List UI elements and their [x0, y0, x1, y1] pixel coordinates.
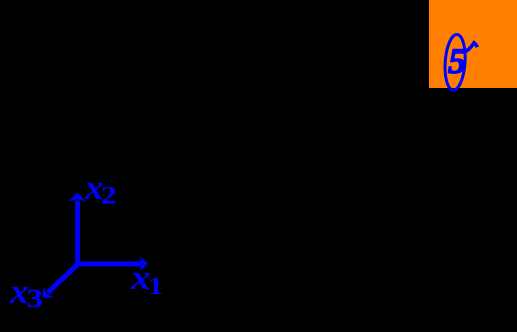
svg-text:3: 3 — [27, 284, 43, 313]
svg-text:2: 2 — [101, 182, 117, 210]
svg-text:1: 1 — [148, 271, 163, 299]
